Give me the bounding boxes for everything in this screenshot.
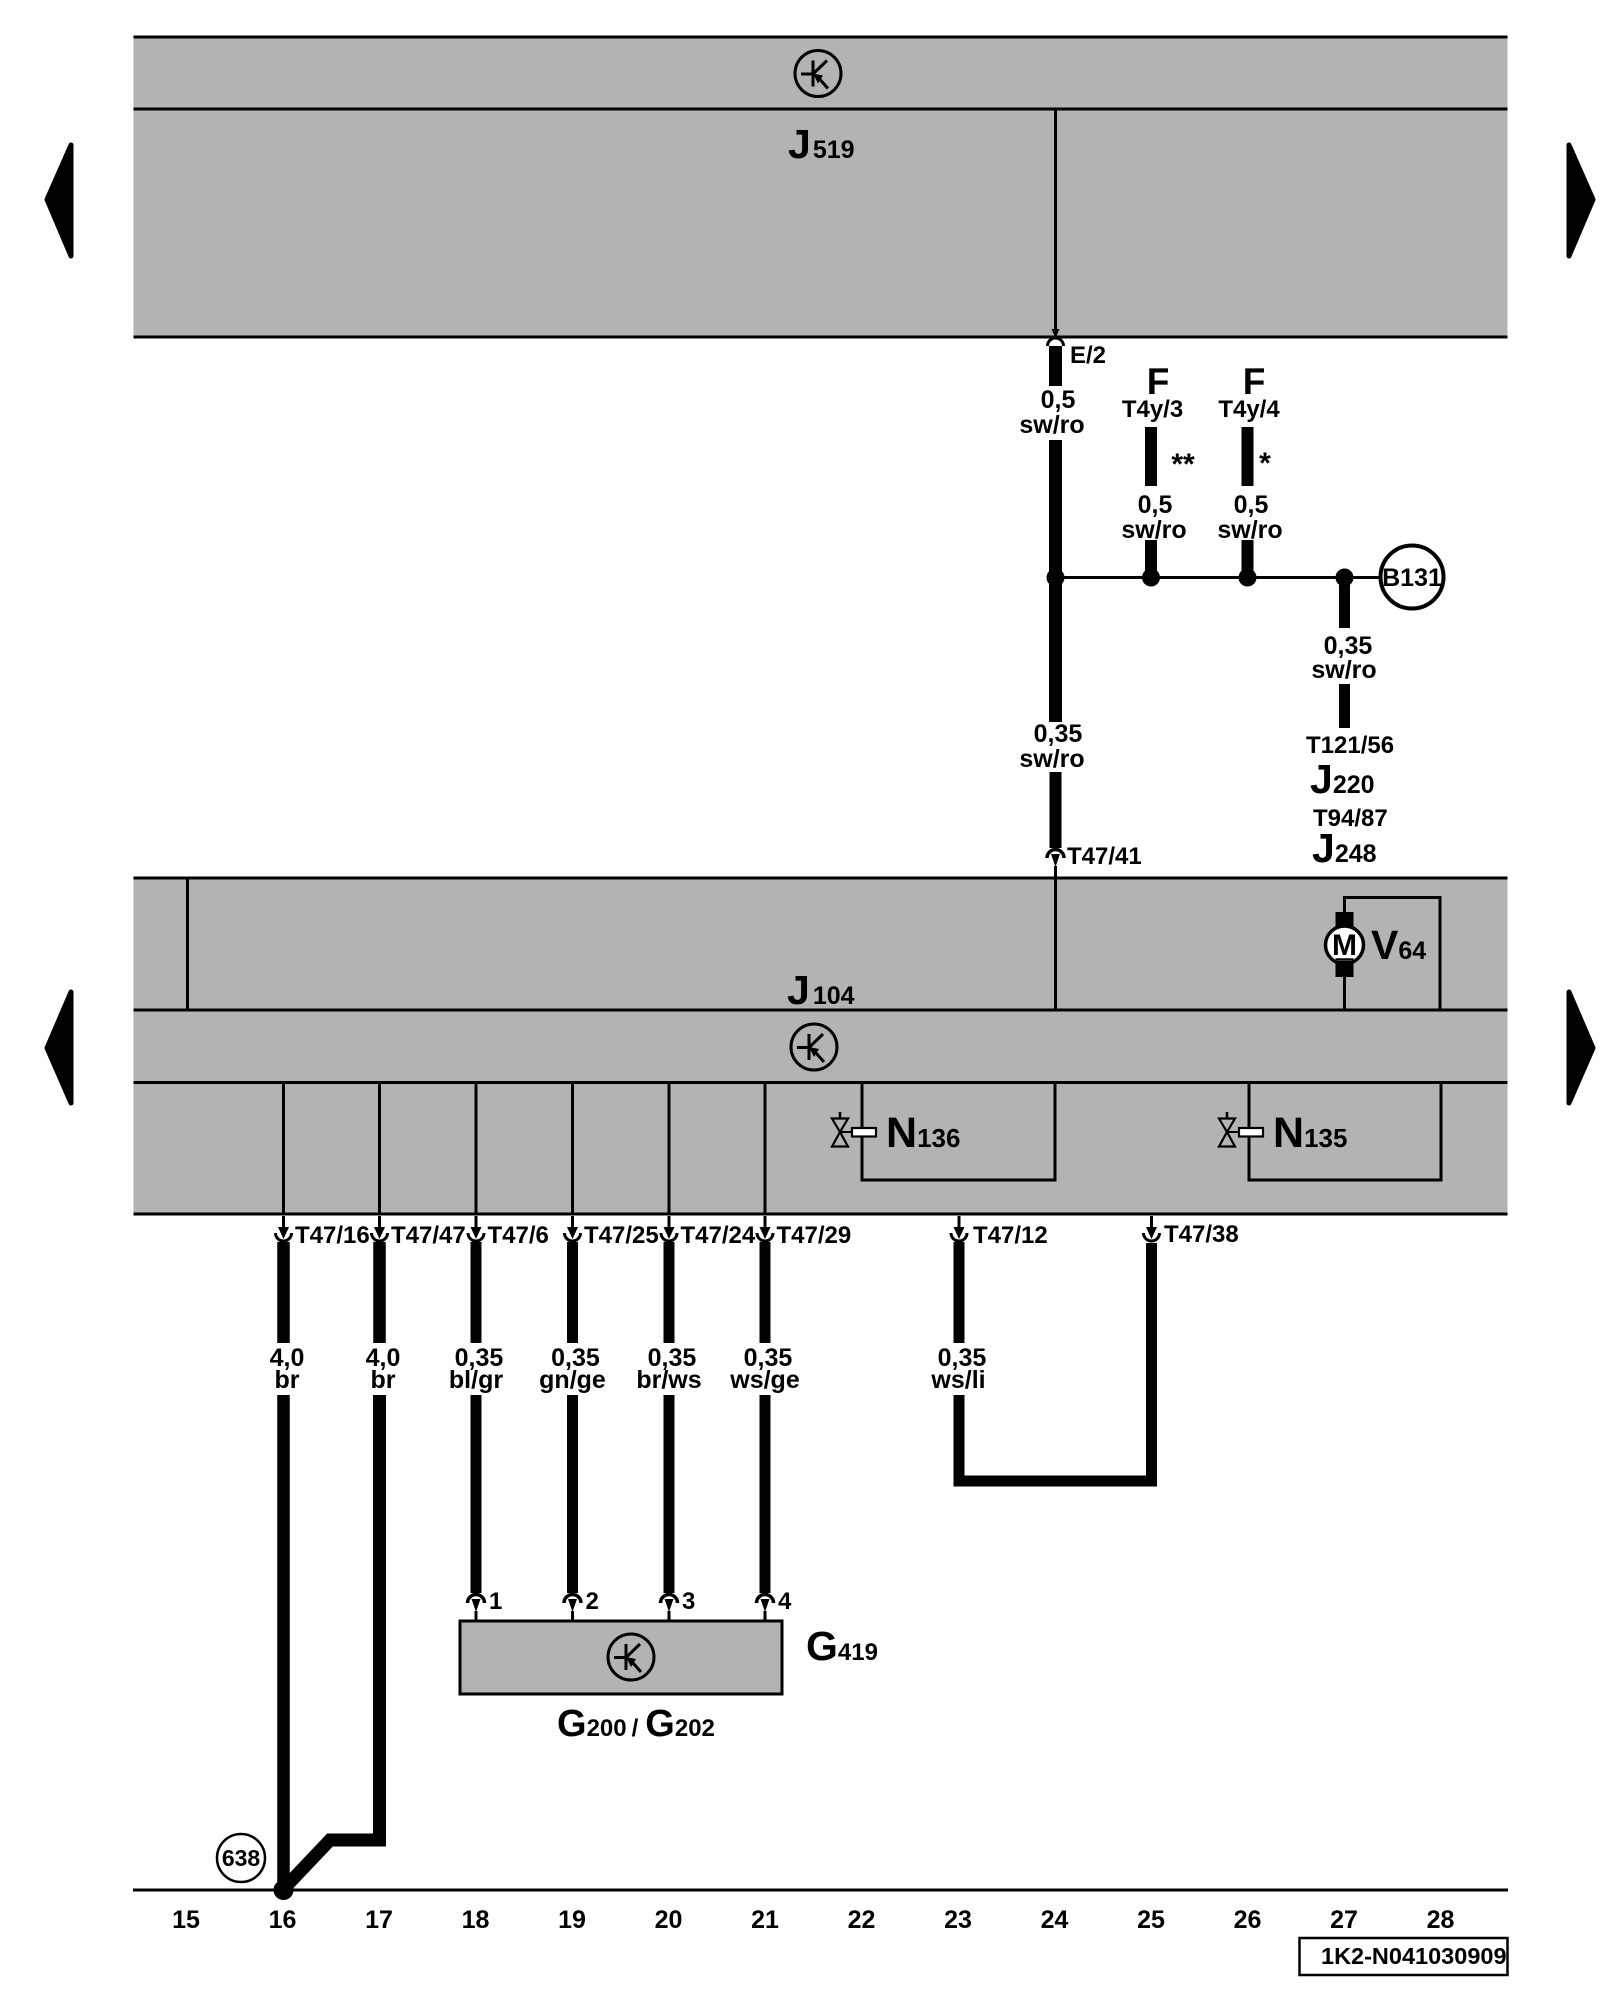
svg-text:23: 23 [944,1906,972,1934]
svg-text:E/2: E/2 [1070,342,1106,369]
svg-text:21: 21 [751,1906,779,1934]
svg-text:br: br [371,1366,396,1394]
svg-text:bl/gr: bl/gr [449,1366,503,1394]
svg-text:sw/ro: sw/ro [1311,656,1376,684]
svg-text:19: 19 [558,1906,586,1934]
svg-text:28: 28 [1427,1906,1455,1934]
svg-text:sw/ro: sw/ro [1217,516,1282,544]
svg-text:26: 26 [1234,1906,1262,1934]
svg-text:T47/29: T47/29 [777,1222,852,1249]
svg-text:br/ws: br/ws [636,1366,701,1394]
svg-text:16: 16 [269,1906,297,1934]
svg-text:0,5: 0,5 [1041,386,1076,414]
svg-text:3: 3 [682,1588,695,1615]
svg-text:T47/16: T47/16 [295,1222,370,1249]
svg-text:0,5: 0,5 [1234,491,1269,519]
svg-text:G200/G202: G200/G202 [557,1703,715,1745]
svg-text:15: 15 [172,1906,200,1934]
svg-text:T121/56: T121/56 [1306,732,1394,759]
svg-text:1K2-N041030909: 1K2-N041030909 [1321,1943,1507,1969]
svg-text:T47/6: T47/6 [488,1222,549,1249]
svg-text:B131: B131 [1382,564,1442,592]
svg-text:18: 18 [462,1906,490,1934]
svg-text:25: 25 [1137,1906,1165,1934]
svg-text:M: M [1332,929,1357,962]
svg-text:T47/25: T47/25 [584,1222,659,1249]
svg-text:T4y/3: T4y/3 [1122,396,1183,423]
svg-text:2: 2 [586,1588,599,1615]
svg-text:T47/38: T47/38 [1164,1221,1239,1248]
svg-text:T4y/4: T4y/4 [1218,396,1280,423]
svg-text:br: br [275,1366,300,1394]
svg-text:ws/ge: ws/ge [729,1366,800,1394]
svg-text:T47/47: T47/47 [391,1222,466,1249]
svg-text:gn/ge: gn/ge [539,1366,606,1394]
svg-text:**: ** [1171,448,1195,481]
svg-text:17: 17 [365,1906,393,1934]
svg-text:ws/li: ws/li [930,1366,985,1394]
svg-text:638: 638 [222,1845,261,1871]
svg-text:22: 22 [848,1906,876,1934]
svg-text:0,5: 0,5 [1138,491,1173,519]
svg-text:G419: G419 [806,1623,878,1669]
svg-text:27: 27 [1330,1906,1358,1934]
svg-text:*: * [1259,447,1271,480]
svg-text:0,35: 0,35 [1034,720,1083,748]
svg-text:4: 4 [778,1588,792,1615]
svg-text:sw/ro: sw/ro [1121,516,1186,544]
svg-text:T47/12: T47/12 [973,1222,1048,1249]
svg-text:sw/ro: sw/ro [1019,745,1084,773]
svg-text:T47/41: T47/41 [1067,843,1142,870]
svg-text:J220: J220 [1310,756,1375,802]
svg-text:20: 20 [655,1906,683,1934]
svg-text:sw/ro: sw/ro [1019,411,1084,439]
svg-text:1: 1 [489,1588,502,1615]
svg-text:T47/24: T47/24 [681,1222,756,1249]
svg-text:24: 24 [1041,1906,1069,1934]
